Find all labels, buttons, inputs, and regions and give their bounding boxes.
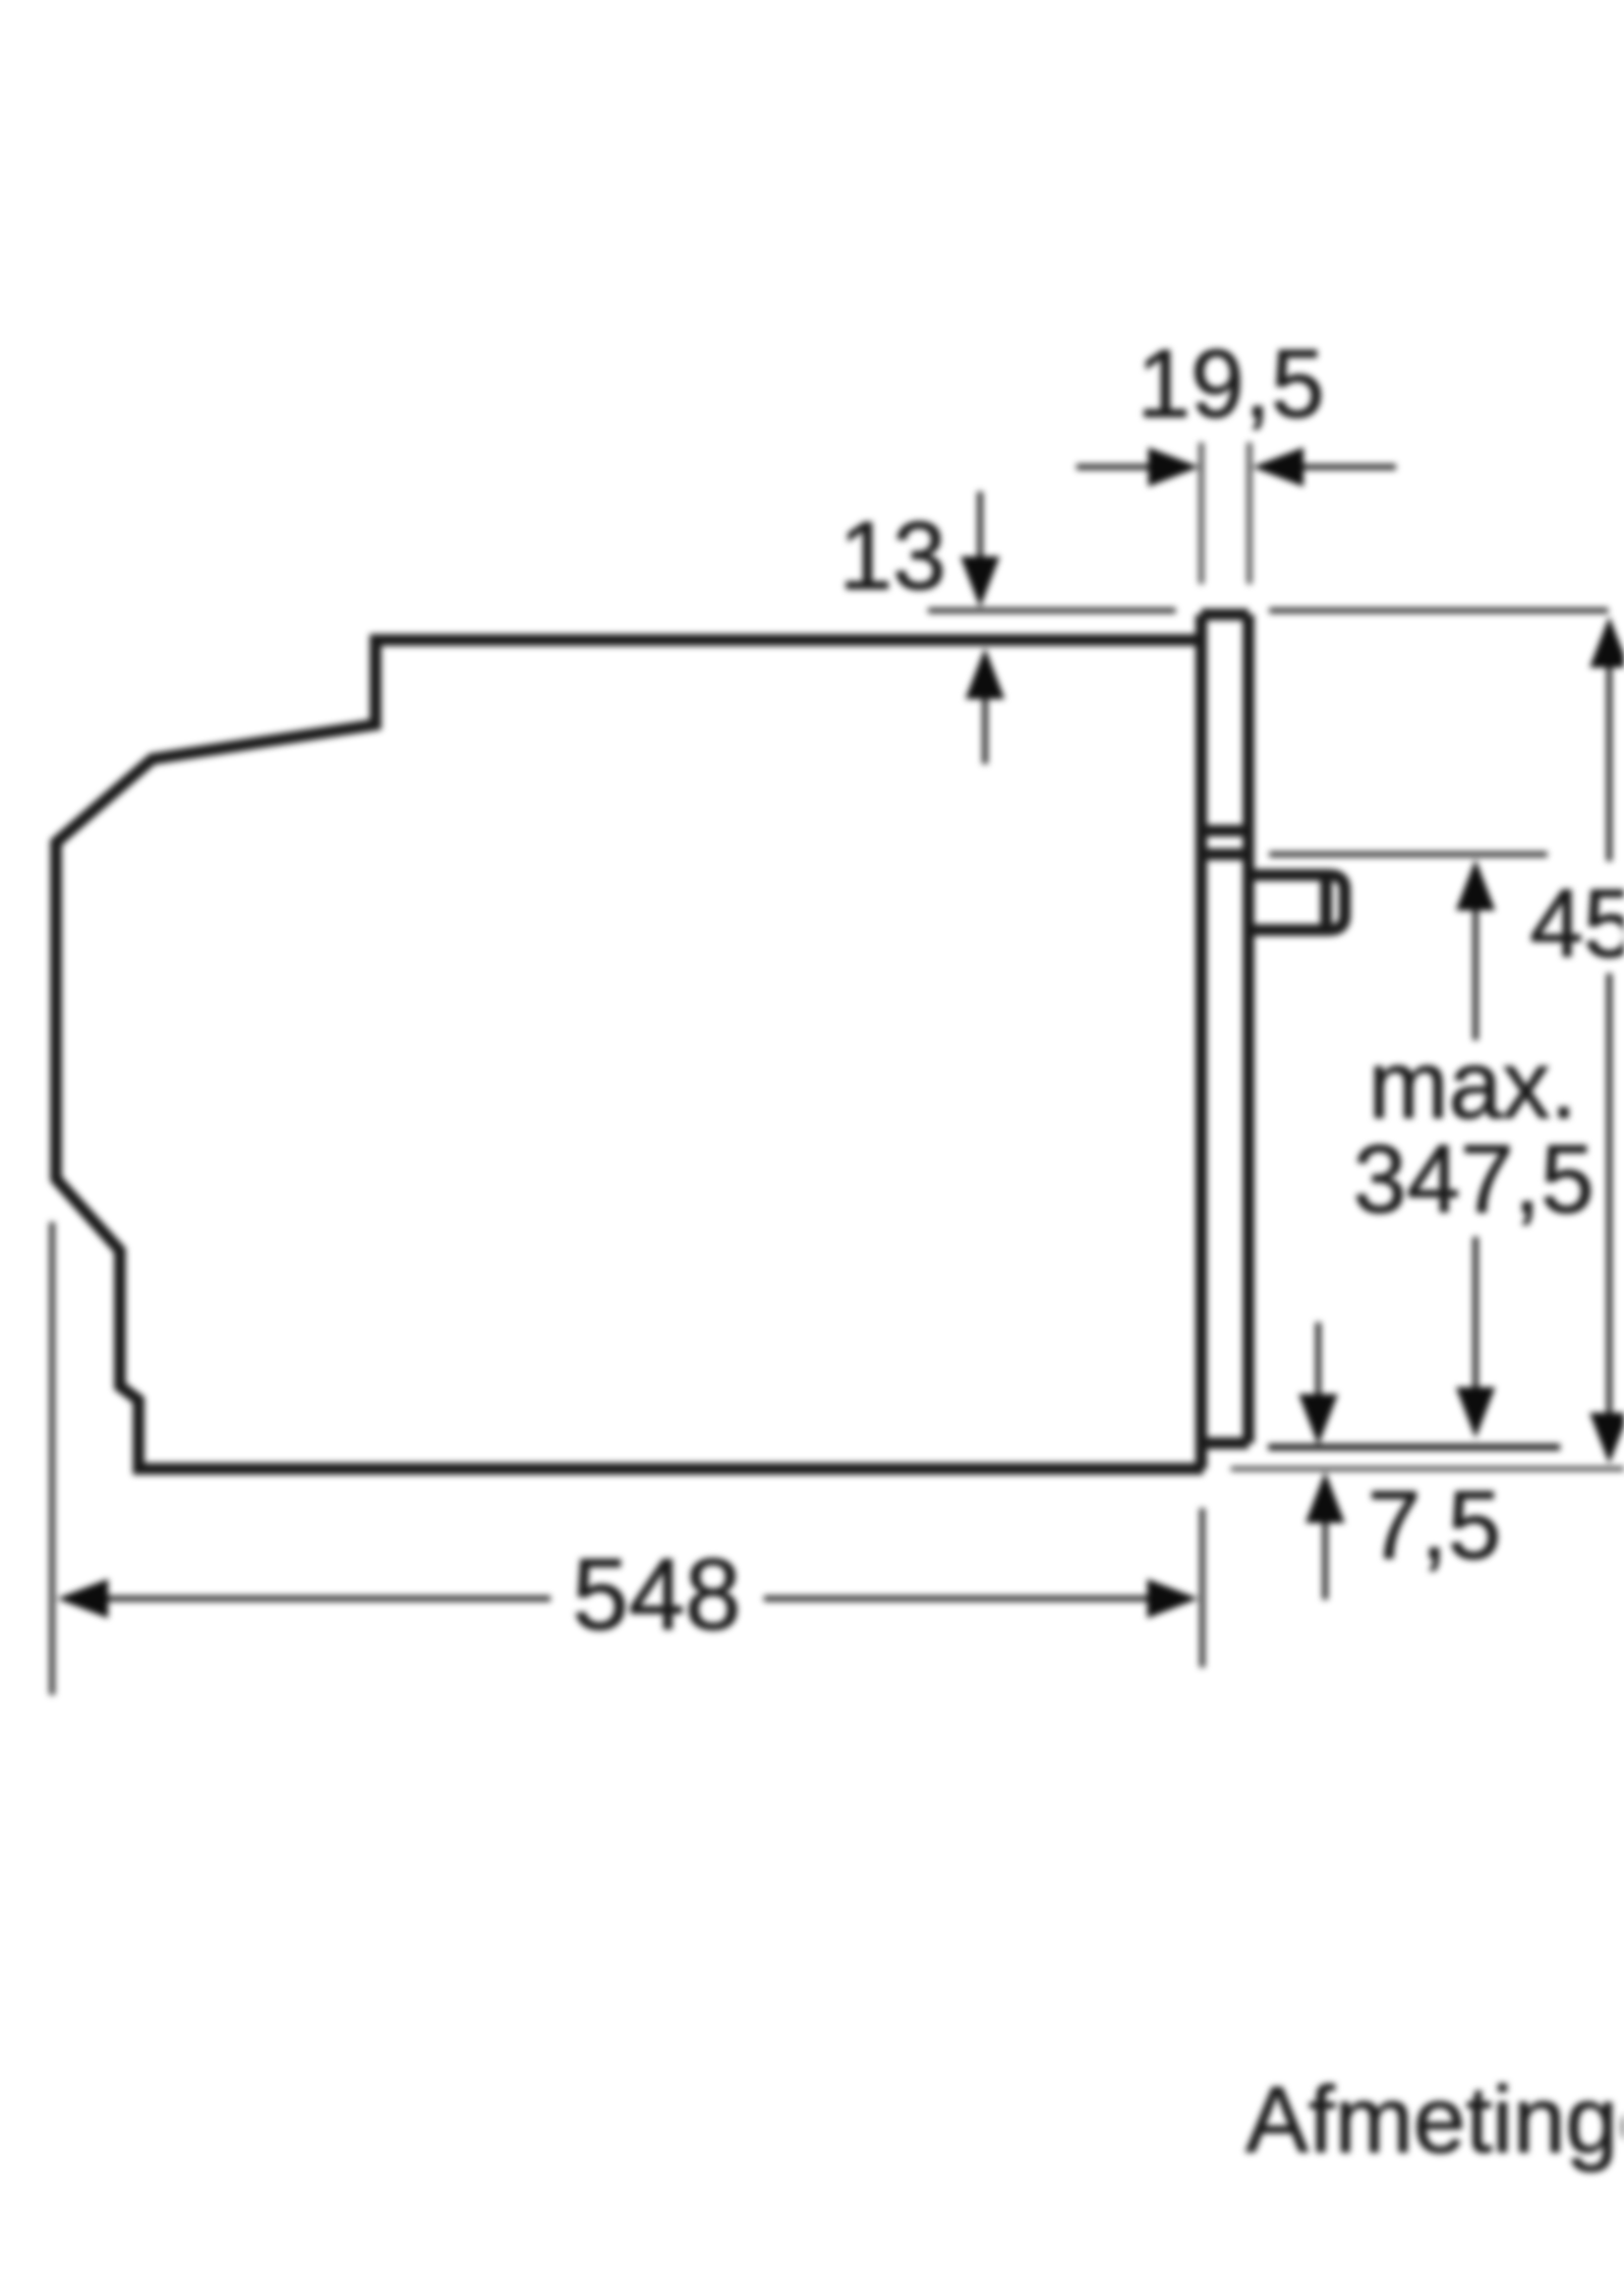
svg-text:max.: max. bbox=[1368, 1030, 1577, 1138]
svg-text:Afmetingen: Afmetingen bbox=[1246, 2068, 1624, 2173]
svg-text:347,5: 347,5 bbox=[1353, 1125, 1594, 1233]
svg-text:13: 13 bbox=[839, 501, 946, 610]
svg-text:19,5: 19,5 bbox=[1137, 329, 1325, 437]
svg-text:548: 548 bbox=[572, 1538, 741, 1651]
svg-text:450: 450 bbox=[1530, 869, 1624, 977]
svg-text:7,5: 7,5 bbox=[1367, 1471, 1501, 1579]
